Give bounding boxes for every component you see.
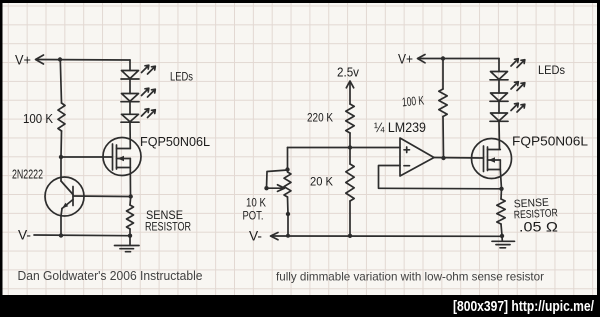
wire 2.5v down to 220K [349,83,351,105]
node 20K bottom on V- rail [348,234,352,238]
svg-text:FQP50N06L: FQP50N06L [140,134,210,149]
wire 100K to V+ rail [442,59,444,90]
node pot top [285,167,289,171]
frame border right [597,0,600,317]
ground (right circuit) [492,236,515,248]
node pot on V- rail [286,234,290,238]
wire gate node down to Q1 collector [60,157,62,181]
node source/base/sense junction [129,194,133,198]
node source sense junction (right) [499,187,503,191]
wire D6 down to MOSFET drain [498,121,501,149]
potentiometer R5 10K wiper arrow [267,185,285,192]
svg-text:POT.: POT. [243,211,264,223]
wire V+ corner down to LED D4 [498,59,500,72]
MOSFET U3 FQP50N06L (right) [472,139,512,179]
wire Q1 base to sense node [73,195,131,198]
svg-text:2.5v: 2.5v [337,66,360,80]
LED D3 light arrows [142,109,156,118]
resistor R3 220K [346,104,354,133]
svg-text:10 K: 10 K [246,198,266,210]
node divider junction [348,145,352,149]
wire pot branch down from + rail [287,148,289,170]
wire V- rail (right circuit) [271,235,502,237]
LED D6 light arrows [511,103,525,112]
svg-text:100 K: 100 K [401,93,425,109]
resistor R4 20K [346,164,354,201]
wire op-amp output to MOSFET gate [434,157,484,160]
wire source down to sense node (right) [500,170,501,189]
wire source down to sense node [129,168,131,197]
resistor R6 100K (right) [439,89,447,117]
svg-text:V-: V- [249,228,262,244]
wire D1 to D2 [129,79,131,94]
wire inverting input feedback to source sense node [379,166,502,189]
LED D1 [121,71,139,80]
wire drain up to LED chain [129,122,131,149]
svg-text:.05 Ω: .05 Ω [519,219,558,235]
LED D6 [490,113,508,121]
svg-text:V+: V+ [15,52,31,68]
wire D4 to D5 [498,80,500,93]
svg-text:Dan Goldwater's 2006 Instructa: Dan Goldwater's 2006 Instructable [18,269,203,283]
wire pot to V- rail [287,214,289,236]
LED D4 light arrows [511,59,525,68]
svg-text:20 K: 20 K [310,175,333,189]
wire D5 to D6 [498,101,500,113]
frame border top [0,0,600,3]
node V+ junction [58,57,62,61]
V- arrow (right circuit) [271,233,279,240]
node sense bottom on V- rail [128,234,132,238]
node emitter on V- rail [59,233,63,237]
wire gate node to MOSFET gate [61,156,112,158]
transistor Q1 2N2222 [45,177,84,236]
svg-text:FQP50N06L: FQP50N06L [512,134,588,149]
wire 20K to V- rail [349,201,351,236]
svg-text:V+: V+ [398,51,413,67]
LED D5 light arrows [511,82,525,91]
LED D3 [121,114,139,122]
svg-text:SENSE: SENSE [146,210,183,222]
svg-text:[800x397] http://upic.me/: [800x397] http://upic.me/ [453,298,595,315]
node gate junction [59,155,63,159]
wire divider node to 20K [349,148,351,165]
LED D2 [121,94,139,102]
LED D4 [490,72,508,80]
node pot bottom lead [286,212,290,216]
wire sense to ground node (right) [501,224,502,236]
wire V+ rail to LED column [36,59,130,62]
wire D2 to D3 [129,102,131,115]
wire V+ rail corner down to LED D1 [129,60,131,71]
MOSFET U1 FQP50N06L (left) [103,138,141,176]
wire wiper link to pot top [267,170,288,188]
frame border left [0,0,3,317]
wire sense resistor to V- node [129,229,131,236]
svg-text:RESISTOR: RESISTOR [145,222,191,234]
svg-text:2N2222: 2N2222 [12,167,43,182]
svg-text:100 K: 100 K [23,112,54,126]
svg-text:fully dimmable variation with: fully dimmable variation with low-ohm se… [276,270,544,284]
ground (left circuit) [115,236,140,252]
wire output node up to 100K [442,117,445,159]
wire noninverting input rail [288,147,401,149]
watermark bar [0,295,600,317]
resistor R1 100K [58,103,65,131]
V+ arrow (left circuit) [36,55,44,64]
wire V- rail (left circuit) [34,234,130,237]
2.5v arrow [346,81,353,88]
wire 220K to divider node [349,133,351,148]
svg-text:¼ LM239: ¼ LM239 [374,119,426,135]
resistor R7 sense .05 ohm [497,199,505,224]
wire V+ junction down to 100K [60,60,61,104]
svg-text:LEDs: LEDs [170,70,193,84]
wire sense node down to sense resistor [129,197,132,206]
node wiper [264,186,268,190]
wire pot bottom [287,197,290,214]
LED D1 light arrows [142,65,156,74]
wire 100K to gate node [60,131,63,157]
svg-text:V-: V- [18,227,31,243]
wire V+ rail to LED column (right) [418,58,499,60]
node sense bottom V- junction (right) [500,234,504,238]
wire to sense resistor (right) [500,189,503,199]
resistor R2 sense (left) [127,205,134,229]
svg-text:220 K: 220 K [307,111,333,125]
potentiometer R5 10K body [284,172,291,197]
op-amp U2 1/4 LM239 [400,138,434,176]
V+ arrow (right circuit) [418,55,426,63]
LED D5 [490,93,508,101]
node 100K on V+ rail [441,56,445,60]
LED D2 light arrows [142,88,156,97]
svg-text:LEDs: LEDs [538,63,565,77]
node output junction [441,156,445,160]
